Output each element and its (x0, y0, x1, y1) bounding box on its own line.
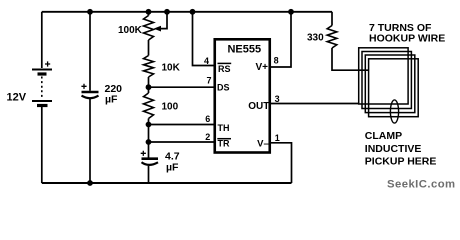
svg-text:7: 7 (206, 76, 211, 86)
svg-text:PICKUP HERE: PICKUP HERE (365, 156, 437, 168)
svg-text:DS: DS (217, 83, 230, 93)
svg-text:V–: V– (257, 139, 269, 150)
svg-text:OUT: OUT (248, 101, 269, 112)
svg-text:3: 3 (275, 94, 280, 104)
svg-text:6: 6 (205, 114, 210, 124)
svg-text:4: 4 (204, 56, 209, 66)
svg-text:8: 8 (274, 55, 279, 65)
svg-text:NE555: NE555 (227, 44, 261, 56)
svg-text:TH: TH (218, 123, 230, 133)
svg-text:2: 2 (205, 132, 210, 142)
svg-text:SeekIC.com: SeekIC.com (387, 179, 456, 191)
svg-text:10K: 10K (162, 62, 181, 73)
svg-text:100K: 100K (118, 25, 143, 36)
svg-text:µF: µF (166, 162, 179, 174)
svg-text:100: 100 (162, 102, 179, 113)
svg-text:V+: V+ (255, 62, 268, 73)
svg-text:INDUCTIVE: INDUCTIVE (365, 143, 422, 155)
svg-text:TR: TR (218, 138, 230, 148)
svg-text:1: 1 (275, 133, 280, 143)
svg-text:RS: RS (218, 64, 231, 74)
svg-text:HOOKUP WIRE: HOOKUP WIRE (369, 33, 445, 45)
svg-text:12V: 12V (7, 92, 27, 104)
svg-text:CLAMP: CLAMP (365, 130, 402, 142)
svg-text:µF: µF (105, 93, 118, 105)
svg-text:330: 330 (307, 33, 324, 44)
svg-text:4.7: 4.7 (165, 151, 180, 163)
